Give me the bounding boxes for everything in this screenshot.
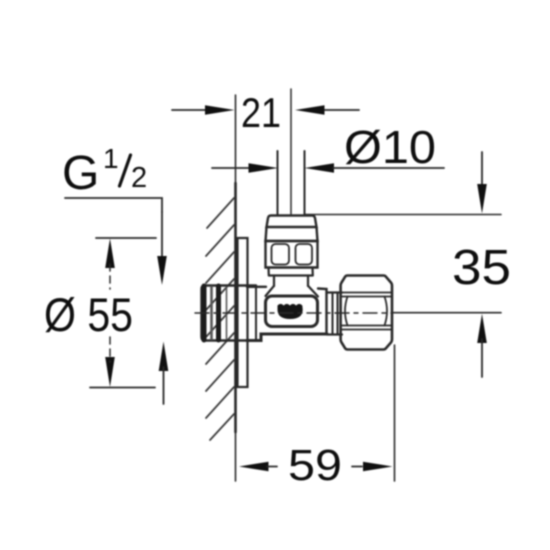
svg-text:59: 59 <box>288 441 342 490</box>
outlet olive line 1 <box>332 293 334 335</box>
dim 35 top leader <box>481 152 483 188</box>
hex flat right <box>296 244 313 265</box>
dim 59 right dash <box>352 466 362 468</box>
G12 lower arrow <box>159 342 169 372</box>
dim 35 bottom leader <box>481 339 483 377</box>
valve body outline <box>247 287 327 334</box>
body window <box>266 296 318 327</box>
G12 upper leader line <box>161 212 163 262</box>
dim 59 left arrow <box>239 462 269 472</box>
dim O55 bottom dashed line <box>109 337 111 362</box>
dim O10 line right <box>333 167 444 169</box>
nipple thread bar 1 <box>202 286 207 340</box>
dim O55 top dashed line <box>109 264 111 289</box>
wall hatching <box>206 198 234 440</box>
svg-text:1: 1 <box>103 143 119 174</box>
dim 21 arrow right <box>295 105 325 115</box>
dim O55 bottom extent line <box>90 387 155 389</box>
nut barrel left arc <box>345 297 348 326</box>
G12 upper arrow <box>157 256 167 285</box>
funnel to body <box>266 286 319 297</box>
svg-text:2: 2 <box>131 162 147 194</box>
nipple end flange line <box>255 286 257 341</box>
dim 59 left dash <box>267 466 277 468</box>
nut flat line bot1 <box>342 325 391 327</box>
wall nipple G1/2 <box>202 286 257 341</box>
dim 35 bottom extent line <box>392 312 501 314</box>
nipple thread bar 3 <box>216 286 221 340</box>
G12 leader underline <box>65 198 162 212</box>
outlet olive line 2 <box>337 293 339 335</box>
dim O55 top arrow <box>105 239 115 269</box>
wall upper extension (21 dim) <box>235 95 237 183</box>
supply pipe centerline <box>290 89 292 214</box>
wall <box>234 183 237 432</box>
dim 35 top arrow <box>477 184 487 214</box>
dim 21 arrow left <box>205 105 235 115</box>
dim O10 arrow left <box>249 163 279 173</box>
dim O55 top extent line <box>96 237 156 239</box>
svg-text:Ø10: Ø10 <box>344 121 436 173</box>
nut barrel right arc <box>385 297 388 326</box>
dim 35 bottom arrow <box>477 314 487 343</box>
top hex nut <box>266 241 318 268</box>
dim 59 right extension <box>394 345 396 481</box>
rosette <box>238 238 248 387</box>
top band <box>266 227 318 241</box>
dim 35 top extent line <box>305 214 501 216</box>
supply pipe right wall <box>304 151 306 215</box>
G12 lower leader line <box>163 367 165 404</box>
dim 59 right arrow <box>363 462 393 472</box>
collar <box>274 276 308 287</box>
main horizontal centerline <box>195 312 392 314</box>
top compression cap <box>267 216 317 228</box>
dim 21 line left <box>172 109 208 111</box>
dim O10 arrow right <box>305 163 335 173</box>
nipple thread line 4 <box>226 287 228 339</box>
hex flat left <box>272 244 290 265</box>
dim O55 bottom arrow <box>105 357 115 387</box>
outlet compression nut <box>341 276 392 350</box>
flow passage blob <box>278 304 303 319</box>
supply pipe left wall <box>277 151 279 215</box>
nut flat line bot2 <box>341 329 392 331</box>
wall lower extension (59 dim) <box>235 432 237 481</box>
svg-text:G: G <box>62 147 99 200</box>
nut flat line top1 <box>341 292 392 294</box>
nut flat line top2 <box>342 296 391 298</box>
svg-text:Ø 55: Ø 55 <box>44 288 133 341</box>
outlet neck <box>327 293 343 335</box>
svg-text:35: 35 <box>452 241 511 295</box>
dim O10 line left <box>212 167 251 169</box>
svg-text:21: 21 <box>241 89 281 136</box>
nipple thread bar 2 <box>210 287 213 339</box>
lower band <box>266 268 318 276</box>
dim 21 line right <box>323 109 359 111</box>
